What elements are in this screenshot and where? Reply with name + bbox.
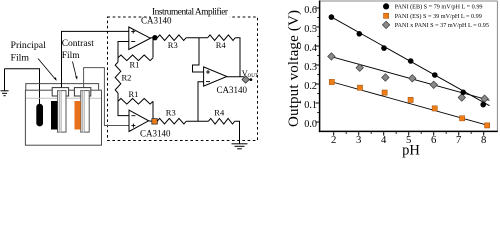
x minor ticks <box>346 132 471 134</box>
node (orange square) <box>152 119 158 125</box>
svg-text:0.1: 0.1 <box>304 100 317 111</box>
Vout terminal (diamond) <box>242 76 249 83</box>
resistor R4 (top) <box>208 35 236 41</box>
series PANI (EB) : black circles <box>329 14 486 107</box>
node (black dot) <box>152 35 157 40</box>
svg-text:0.6: 0.6 <box>304 5 317 16</box>
x axis <box>319 130 498 132</box>
svg-text:Contrast: Contrast <box>62 39 95 49</box>
wire node R3-R4 (top) <box>186 37 208 39</box>
holder 2 <box>74 88 90 96</box>
resistor R3 (bottom) <box>157 118 186 124</box>
resistor R4 (bottom) <box>209 118 235 124</box>
op-amp U1 (top CA3140) <box>129 27 151 50</box>
svg-text:Output voltage (V): Output voltage (V) <box>286 10 302 127</box>
svg-text:6: 6 <box>431 134 437 146</box>
wire node R3-R4 (bottom) <box>186 120 208 122</box>
svg-text:pH: pH <box>402 142 420 158</box>
U2 output wire to node <box>148 120 152 122</box>
U3 output wire <box>227 76 244 78</box>
fit line PANI x PANI <box>330 56 490 100</box>
beaker <box>25 90 101 145</box>
R4 top to output net <box>235 38 240 77</box>
resistor R1 (bottom) <box>118 99 153 105</box>
svg-text:CA3140: CA3140 <box>217 85 248 95</box>
holder 1 <box>52 88 68 96</box>
svg-text:R3: R3 <box>166 108 176 118</box>
svg-text:R1: R1 <box>130 59 140 69</box>
beaker lid <box>26 84 99 91</box>
svg-text:Principal: Principal <box>11 40 47 51</box>
ground (left, reference electrode) <box>1 69 9 96</box>
U3 - input down to bottom rail <box>198 82 204 121</box>
op-amp U3 (output CA3140) <box>204 67 227 86</box>
U1 feedback: - input wire <box>118 42 129 58</box>
leader to principal film <box>38 59 56 80</box>
fit line PANI (EB) <box>330 16 489 105</box>
op-amp U2 (bottom CA3140) <box>129 110 149 131</box>
x tick labels <box>331 134 486 146</box>
U1 output wire to node <box>150 37 155 39</box>
svg-text:Film: Film <box>62 51 81 61</box>
junction down to U3 + <box>193 38 204 72</box>
y major ticks <box>315 8 319 122</box>
fit line PANI (ES) <box>331 82 490 126</box>
svg-text:3: 3 <box>356 134 361 146</box>
legend <box>382 3 489 29</box>
x major ticks <box>334 132 484 136</box>
svg-text:OUT: OUT <box>248 74 258 79</box>
liquid level <box>26 97 101 99</box>
svg-text:2: 2 <box>331 134 336 146</box>
svg-text:R1: R1 <box>129 89 139 99</box>
series PANI (ES) : orange squares <box>329 79 490 128</box>
leader to contrast film <box>73 62 77 79</box>
svg-text:R4: R4 <box>214 108 225 118</box>
wire B: contrast film to U2 + <box>84 68 129 126</box>
svg-text:0.3: 0.3 <box>304 62 317 73</box>
svg-text:Film: Film <box>11 53 30 64</box>
svg-text:7: 7 <box>456 134 462 146</box>
y minor ticks <box>317 18 319 113</box>
svg-text:PANI (EB) S = 79 mV/pH L = 0.: PANI (EB) S = 79 mV/pH L = 0.99 <box>395 4 483 11</box>
svg-text:PANI x PANI S = 37 mV/pH L =: PANI x PANI S = 37 mV/pH L = 0.95 <box>395 22 489 29</box>
U2 feedback: - input wire <box>118 101 129 115</box>
svg-text:0.4: 0.4 <box>304 43 317 54</box>
white strip 1 <box>58 91 66 133</box>
svg-text:R3: R3 <box>168 40 178 50</box>
wire A: principal film to U1 + <box>62 31 129 87</box>
wire: reference electrode to ground <box>5 69 40 105</box>
svg-text:CA3140: CA3140 <box>140 128 171 138</box>
svg-text:0.0: 0.0 <box>304 119 317 130</box>
plot top border <box>320 0 498 2</box>
plot right border <box>496 1 498 131</box>
series PANI x PANI : gray diamonds <box>328 53 489 103</box>
white strip 2 <box>81 91 89 133</box>
svg-text:0.2: 0.2 <box>304 81 317 92</box>
R4 bottom to ground <box>235 121 240 143</box>
y tick labels <box>304 5 317 130</box>
svg-text:4: 4 <box>381 134 387 146</box>
contrast film strip (orange) <box>75 101 81 130</box>
resistor R3 (top) <box>157 35 186 41</box>
svg-text:R2: R2 <box>122 72 132 82</box>
reference electrode (black pill) <box>36 104 43 127</box>
svg-text:CA3140: CA3140 <box>141 15 172 25</box>
title background <box>151 5 230 18</box>
resistor R1 (top) <box>118 55 153 61</box>
principal film strip (black) <box>51 101 57 130</box>
svg-text:R4: R4 <box>216 40 227 50</box>
dashed border: instrumentation amplifier box <box>108 17 258 141</box>
svg-text:8: 8 <box>481 134 486 146</box>
ground (R4) <box>232 144 248 149</box>
svg-text:PANI (ES) S = 39 mV/pH L = 0.: PANI (ES) S = 39 mV/pH L = 0.99 <box>395 13 482 20</box>
y axis <box>319 1 321 133</box>
svg-text:0.5: 0.5 <box>304 24 317 35</box>
resistor R2 <box>115 58 121 102</box>
